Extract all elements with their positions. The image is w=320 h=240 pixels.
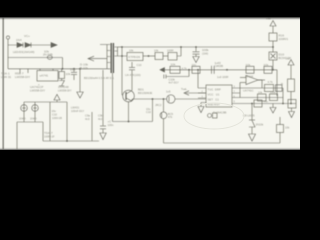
svg-text:1N40·: 1N40·: [19, 117, 26, 121]
input terminal J1: [6, 36, 9, 40]
node dot A: [62, 68, 64, 70]
wire: row y88: [232, 87, 283, 89]
fuse F1 oval: [47, 56, 52, 60]
svg-text:C#63B: C#63B: [215, 64, 224, 68]
transformer T1: [100, 43, 118, 73]
node dot L: [251, 103, 253, 105]
svg-text:100R/1: 100R/1: [279, 37, 289, 41]
svg-text:10k: 10k: [171, 62, 176, 66]
ground G6: [289, 108, 295, 118]
svg-text:10k: 10k: [129, 49, 134, 53]
svg-text:uA741: uA741: [40, 74, 49, 78]
svg-text:R: R: [281, 82, 283, 86]
resistor R17 box: [258, 94, 267, 101]
svg-text:10k: 10k: [264, 63, 269, 67]
ground G5: [270, 104, 276, 114]
svg-text:1N4148: 1N4148: [58, 85, 69, 89]
svg-text:1u5: 1u5: [166, 89, 171, 93]
capacitor C10 coupling: [129, 62, 135, 90]
wire: x283 join: [282, 88, 284, 104]
inline transistor Q2: [167, 95, 175, 103]
supply arrow VCC2: [288, 60, 294, 79]
svg-text:C10: C10: [137, 63, 142, 67]
node dot M: [128, 121, 130, 123]
resistor R7 box: [168, 53, 177, 61]
wire: [185, 92, 206, 94]
node dot G: [272, 46, 274, 48]
svg-text:1u0·100R: 1u0·100R: [217, 75, 229, 79]
svg-text:100n: 100n: [70, 68, 76, 72]
reference D3 stub: [19, 69, 21, 73]
capacitor C13 electrolytic: [49, 102, 51, 141]
svg-text:4n3: 4n3: [85, 117, 90, 121]
node dot J: [282, 103, 284, 105]
op-amp U3: [240, 76, 265, 85]
supply arrow +9V: [270, 21, 276, 33]
resistor R13 box: [288, 79, 295, 92]
node dot D: [121, 55, 123, 57]
svg-text:+5v: +5v: [264, 100, 269, 104]
svg-text:100n: 100n: [108, 123, 114, 127]
svg-text:10k: 10k: [246, 63, 251, 67]
svg-text:BD139/MJE: BD139/MJE: [138, 91, 153, 95]
svg-text:JRC2: JRC2: [155, 103, 162, 107]
capacitor C3 box: [170, 66, 180, 73]
svg-text:C8·LM35: C8·LM35: [243, 114, 255, 118]
wire: emitter row to U2 pin3: [175, 98, 206, 100]
svg-text:UA741C: UA741C: [243, 89, 254, 93]
resistor R19 box: [270, 94, 278, 101]
LED D13 indicator: [160, 112, 167, 143]
wire: LED drop: [163, 99, 165, 112]
wire: Q1 emitter down: [128, 102, 130, 122]
capacitor C14: [66, 102, 68, 141]
svg-text:LM4·31: LM4·31: [1, 75, 12, 79]
svg-text:100k: 100k: [270, 90, 276, 94]
top letterbox bar: [0, 0, 304, 18]
LED D14: [21, 102, 28, 122]
svg-text:BD139/w44 0.5-6.4R D.1: BD139/w44 0.5-6.4R D.1: [84, 76, 114, 80]
wire: U2 right pins: [232, 93, 252, 104]
timer U2 box: [206, 85, 232, 107]
wire: lower link y103: [24, 101, 67, 103]
net arrow into U2 pin2: [184, 91, 189, 95]
svg-text:LED/D3(1N4148): LED/D3(1N4148): [13, 50, 35, 54]
svg-text:10k: 10k: [285, 126, 290, 130]
resistor R20 box: [254, 100, 262, 107]
off-page arrow node VOUT: [51, 43, 57, 48]
wire: second wire y57: [8, 58, 63, 69]
svg-text:TL064C8B: TL064C8B: [213, 111, 227, 115]
capacitor C12 drop: [152, 99, 154, 122]
svg-text:LM358-DIY: LM358-DIY: [15, 75, 30, 79]
wire: [272, 60, 274, 70]
op-amp U1 box: [37, 69, 58, 81]
diode D10 box: [269, 52, 277, 60]
svg-text:2N10k: 2N10k: [256, 123, 264, 127]
diode D2: [25, 43, 31, 48]
wire: bottom wire y141: [43, 140, 99, 142]
ground G7: [249, 134, 256, 141]
svg-text:1N40·: 1N40·: [30, 117, 37, 121]
node dot M1: [152, 98, 154, 100]
node dot E: [180, 46, 182, 48]
regulator B1 box: [127, 53, 143, 61]
svg-text:KTP8-D6: KTP8-D6: [129, 55, 141, 59]
wire: [290, 92, 292, 105]
RC sub branch: [164, 70, 189, 79]
wire: [163, 55, 168, 57]
svg-text:TuaL: TuaL: [181, 87, 188, 91]
resistor R21 box: [277, 117, 284, 143]
LED D15: [32, 102, 39, 122]
wire: U2 left pins: [198, 93, 206, 98]
svg-text:D10: D10: [279, 53, 285, 57]
capacitor C1: [71, 69, 77, 80]
svg-text:SET C1: SET C1: [208, 98, 220, 102]
svg-text:10k: 10k: [66, 72, 71, 76]
svg-text:1R-1W: 1R-1W: [245, 75, 254, 79]
wire: zener chain x252: [251, 104, 253, 121]
resistor R14 box: [265, 85, 274, 92]
wire: row y97.5: [232, 83, 283, 98]
label U2 pin numbers: [202, 87, 236, 104]
svg-text:10n: 10n: [192, 63, 197, 67]
bottom letterbox bar: [0, 150, 304, 174]
node dot B2: [73, 68, 75, 70]
svg-text:16v: 16v: [52, 109, 57, 113]
ground G8: [100, 133, 106, 140]
wire: main rail y67: [8, 68, 107, 70]
svg-text:10k: 10k: [258, 90, 263, 94]
node dot F: [195, 46, 197, 48]
wire: secondary top to rail2: [118, 46, 123, 48]
capacitor C2 on rail: [193, 47, 200, 57]
wire: top wire y45: [8, 44, 51, 46]
wire: U2 pin1 to mid rail: [198, 70, 206, 88]
wire: transformer return x112.5: [112, 73, 114, 122]
svg-text:TDA·7: TDA·7: [44, 131, 53, 135]
sensor box U4: [288, 100, 296, 109]
wire: emitter row y99: [132, 99, 167, 101]
node dot H: [272, 69, 274, 71]
svg-text:10k: 10k: [154, 49, 159, 53]
svg-text:4.7k: 4.7k: [182, 66, 188, 70]
svg-text:UA·47K(100): UA·47K(100): [125, 73, 141, 77]
node dot C: [121, 46, 123, 48]
mid rail arrow connector: [160, 68, 165, 72]
wire: [177, 47, 181, 56]
svg-text:4n7-D1Y: 4n7-D1Y: [169, 81, 180, 85]
wire: x103 branch: [100, 70, 106, 133]
wire: left input rail vertical: [7, 40, 9, 69]
wire: [272, 41, 274, 52]
node dot K: [290, 103, 292, 105]
wire: y122 link: [17, 122, 43, 149]
wire: mid rail y69.8: [164, 69, 277, 71]
resistor R2: [59, 69, 65, 79]
wire: bottom bus y143: [164, 142, 281, 144]
svg-text:4.7k: 4.7k: [268, 80, 274, 84]
node dot G3a: [188, 69, 190, 71]
preset RV1 box: [155, 53, 163, 60]
faint ring artifact: [184, 103, 244, 129]
wire: [143, 55, 155, 57]
wire: vertical x122 to base: [118, 47, 128, 95]
schematic left border line: [2, 18, 4, 149]
off-page arrow to primary: [88, 56, 107, 61]
svg-text:2N·54B: 2N·54B: [43, 53, 53, 57]
node dot N: [66, 140, 68, 142]
svg-text:C10: C10: [146, 110, 151, 114]
resistor R15 box: [276, 85, 283, 92]
svg-text:LM358-DIY: LM358-DIY: [30, 89, 45, 93]
ground G2: [193, 57, 199, 63]
wire: +5V row y104: [252, 103, 296, 105]
capacitor C5 inline: [212, 66, 215, 74]
diode D5: [59, 79, 64, 87]
svg-text:47b: 47b: [168, 115, 173, 119]
svg-text:1000-1B: 1000-1B: [52, 116, 62, 120]
svg-text:4n3: 4n3: [98, 117, 103, 121]
node dot E2: [148, 55, 150, 57]
schematic paper background: [0, 17, 300, 150]
ground G1: [77, 69, 83, 98]
svg-text:LM358-DIY: LM358-DIY: [58, 89, 72, 93]
wire: x277 down: [276, 70, 278, 96]
svg-text:vcc: vcc: [286, 58, 291, 61]
node dot B: [79, 68, 81, 70]
resistor R16 box: [269, 33, 277, 41]
node dot H2: [226, 69, 228, 71]
resistor R11 box: [264, 66, 272, 73]
supply arrow VCC3: [54, 94, 60, 102]
transistor Q1: [123, 90, 135, 102]
diode D1: [17, 43, 23, 48]
svg-text:100R: 100R: [167, 49, 173, 53]
svg-text:B·10k: B·10k: [80, 66, 88, 70]
capacitor C9: [91, 112, 93, 141]
wire: top rail y46.5: [122, 46, 273, 48]
svg-text:TUC DRP: TUC DRP: [208, 88, 221, 92]
capacitor C4 box: [192, 66, 200, 73]
wire: opamp out to row88: [258, 80, 262, 88]
svg-text:1N4: 1N4: [16, 38, 22, 42]
reference D4 stub: [27, 69, 29, 73]
svg-text:VC+: VC+: [24, 34, 30, 38]
svg-text:100nF-D1Y: 100nF-D1Y: [71, 109, 85, 113]
node dot H3: [197, 69, 199, 71]
svg-text:VCC U1: VCC U1: [208, 93, 220, 97]
zener D11: [249, 120, 255, 134]
wire: emitter bottom wire y121.5: [113, 121, 153, 123]
resistor R9 box: [246, 66, 254, 73]
marker C below U2: [208, 113, 218, 118]
svg-text:100R-1F: 100R-1F: [44, 135, 55, 139]
ground G4: [198, 103, 206, 113]
svg-text:(1M): (1M): [202, 52, 208, 56]
node dot M2: [163, 98, 165, 100]
